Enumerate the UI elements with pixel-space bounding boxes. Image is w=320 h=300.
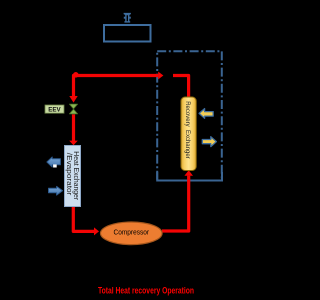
svg-text:Heat Exchanger: Heat Exchanger [72, 151, 79, 200]
wire: compressor outlet to recovery exchanger bottom [162, 176, 189, 231]
EEV label [45, 105, 64, 113]
blue block arrow (air in, points right) [49, 186, 63, 195]
arrowhead into compressor [94, 227, 99, 235]
arrowhead into evaporator top [69, 141, 78, 146]
arrowhead up into recovery exchanger bottom [184, 170, 193, 176]
wire: EEV valve to evaporator top [72, 114, 75, 141]
dashed enclosure box [157, 51, 222, 180]
recovery exchanger [181, 97, 196, 171]
svg-text:Recovery Exchanger: Recovery Exchanger [184, 101, 191, 159]
EEV expansion valve (two green triangles) [69, 104, 77, 114]
junction nub at left elbow [73, 72, 79, 78]
wire: evaporator bottom to compressor inlet [73, 207, 94, 232]
svg-text:EEV: EEV [48, 106, 61, 113]
yellow block arrow (water in, points right) [202, 137, 216, 147]
enclosure solid bottom edge [157, 172, 222, 181]
wire: hot-gas line, exchanger top to left elbow (upper horizontal) [74, 76, 159, 97]
compressor [101, 222, 163, 245]
fan symbol on outdoor unit [124, 13, 131, 23]
svg-text:Compressor: Compressor [114, 228, 150, 237]
wire: enclosure stub to recovery exchanger top [173, 76, 189, 98]
blue block arrow (air out, points left) [47, 157, 61, 167]
white notch under blue arrow [53, 164, 57, 167]
heat exchanger / evaporator [65, 146, 81, 207]
arrowhead into enclosure (rightward) [158, 72, 163, 80]
svg-text:Total Heat recovery Operation: Total Heat recovery Operation [98, 285, 194, 295]
arrowhead down into EEV valve [69, 96, 77, 103]
svg-text:/Evaporator: /Evaporator [65, 153, 72, 196]
outdoor unit box [104, 25, 151, 42]
yellow block arrow (water out, points left) [199, 109, 213, 119]
